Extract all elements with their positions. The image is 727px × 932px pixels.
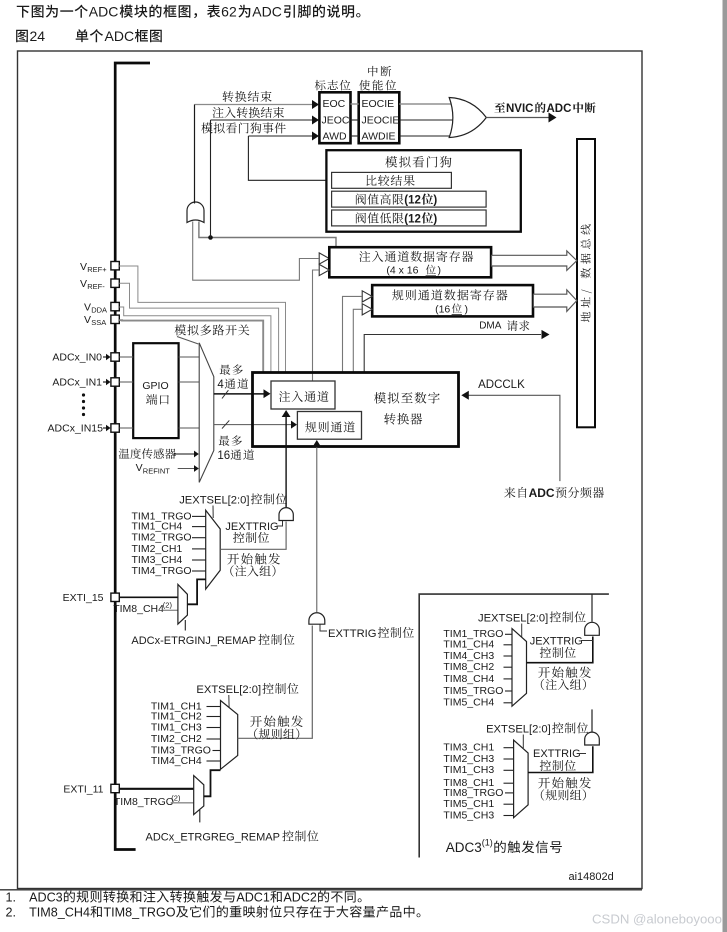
svg-text:TIM8_CH4: TIM8_CH4 <box>29 906 90 920</box>
svg-text:V: V <box>84 302 91 314</box>
selector stub MUX4 <box>199 810 201 822</box>
wire VDDA <box>119 307 271 372</box>
label ADCx_IN0 <box>52 352 110 364</box>
svg-text:EXTTRIG: EXTTRIG <box>533 748 581 760</box>
svg-text:JEOC: JEOC <box>322 115 350 127</box>
tick ADC3 JEXTTRIG <box>581 640 593 642</box>
enable box EOCIE/JEOCIE/AWDIE <box>359 92 400 143</box>
label AWD <box>323 131 348 143</box>
svg-text:ADC: ADC <box>252 4 282 20</box>
label (4x16位) <box>386 265 441 277</box>
wire MUX1 output to gate GJ <box>220 522 286 550</box>
label GPIO 端口 <box>142 380 169 405</box>
svg-text:TIM1_CH3: TIM1_CH3 <box>151 722 202 734</box>
label DMA 请求 <box>479 320 529 331</box>
label 阀值低限(12位) <box>356 212 438 225</box>
MUX1 inputs TIM1_TRGO..TIM4_TRGO <box>132 510 206 577</box>
svg-text:EXTSEL[2:0]: EXTSEL[2:0] <box>196 684 261 696</box>
figure caption 图24 单个ADC框图 <box>16 28 162 44</box>
svg-text:ADC3: ADC3 <box>446 840 482 855</box>
wire DMA request <box>364 330 549 372</box>
wire IN0 to GPIO <box>119 356 133 358</box>
svg-text:CSDN @aloneboyooo: CSDN @aloneboyooo <box>592 912 722 927</box>
MUX6 inputs TIM3_CH1..TIM5_CH3 <box>443 742 513 822</box>
pin pad ADCx_IN15 <box>111 424 119 432</box>
wire GPIO to mux row1 <box>179 381 200 383</box>
tick ADC3 EXTTRIG <box>580 753 586 755</box>
svg-text:): ) <box>433 214 437 226</box>
svg-text:TIM5_CH4: TIM5_CH4 <box>443 697 494 709</box>
pin pad VSSA <box>111 315 119 323</box>
label VREF- <box>80 278 105 291</box>
svg-text:EXTSEL[2:0]: EXTSEL[2:0] <box>486 724 551 736</box>
svg-text:TIM8_CH2: TIM8_CH2 <box>443 661 494 673</box>
label VREF+ <box>80 261 107 274</box>
label 注入通道数据寄存器 <box>359 251 473 262</box>
wire AWDIE to G2 <box>399 135 454 137</box>
analog multiplexer <box>199 343 214 483</box>
AND gate GJ3 <box>585 622 600 635</box>
pin pad EXTI_15 <box>111 593 119 601</box>
svg-text:TIM4_TRGO: TIM4_TRGO <box>132 565 192 577</box>
svg-text:EXTI_11: EXTI_11 <box>63 784 103 796</box>
injected trigger mux MUX1 <box>206 510 221 589</box>
label ADC3 JEXTSEL[2:0]控制位 <box>478 611 586 624</box>
svg-text:62: 62 <box>221 4 237 20</box>
AND gate GE3 <box>585 732 600 745</box>
regular data register box <box>372 285 533 316</box>
watchdog box <box>326 150 520 232</box>
svg-text:EOCIE: EOCIE <box>362 98 395 110</box>
svg-text:ADC3: ADC3 <box>29 891 63 905</box>
svg-text:V: V <box>136 462 143 474</box>
svg-text:ADC2: ADC2 <box>283 891 317 905</box>
svg-text:): ) <box>465 303 469 315</box>
svg-text:REF-: REF- <box>87 282 105 291</box>
label AWDIE <box>362 131 396 143</box>
selector line JEXTSEL <box>212 506 214 519</box>
svg-text:TIM2_TRGO: TIM2_TRGO <box>132 532 192 544</box>
pin pad VREF- <box>111 279 119 287</box>
label 最多16通道 <box>217 435 254 462</box>
svg-text:ai14802d: ai14802d <box>569 871 614 883</box>
label ADC3(1)的触发信号 <box>446 838 562 856</box>
wire ADCCLK <box>461 391 560 481</box>
wire 温度传感器 <box>174 451 199 458</box>
ADC3 injected mux MUX5 <box>512 629 527 707</box>
stub EOC-EOCIE <box>351 103 359 105</box>
svg-text:TIM1_CH3: TIM1_CH3 <box>443 764 494 776</box>
label 来自ADC预分频器 <box>504 486 604 500</box>
wire EXTI_15 <box>119 596 180 598</box>
label 标志位 <box>315 80 351 91</box>
ellipsis dots <box>82 393 85 416</box>
regular trigger mux MUX3 <box>221 701 238 770</box>
svg-text:TIM8_CH4: TIM8_CH4 <box>113 603 164 615</box>
svg-text:JEXTTRIG: JEXTTRIG <box>530 636 583 648</box>
svg-text:): ) <box>438 265 442 277</box>
label 地址/数据总线 vertical <box>581 224 592 322</box>
wire injected channels <box>214 389 271 398</box>
svg-text:REFINT: REFINT <box>143 467 171 476</box>
stub JEOC-JEOCIE <box>351 119 359 121</box>
label ADC3 开始触发(规则组) <box>538 777 591 801</box>
wire AWD to comparison box <box>248 136 331 180</box>
tick EXTTRIG <box>320 625 327 632</box>
label 转换器 <box>384 413 422 425</box>
label 注入通道 <box>279 391 328 402</box>
remap mux MUX4 <box>194 776 204 815</box>
svg-text:ADC: ADC <box>89 4 119 20</box>
svg-text:TIM3_CH1: TIM3_CH1 <box>443 742 494 754</box>
pin pad VDDA <box>111 302 119 310</box>
svg-text:AWD: AWD <box>323 131 348 143</box>
arrow into regular register D <box>362 304 372 315</box>
label ADCx_ETRGREG_REMAP控制位 <box>146 830 319 843</box>
callout line 模拟多路开关 <box>177 337 198 345</box>
note 1 <box>6 891 362 905</box>
OR gate G2 <box>449 98 486 138</box>
label 规则通道数据寄存器 <box>392 289 507 300</box>
wire G1 input B <box>199 222 336 247</box>
page heading paragraph <box>17 4 361 20</box>
label ADCx-ETRGINJ_REMAP控制位 <box>131 634 294 647</box>
arrow into regular register C <box>362 291 372 302</box>
wire MUX6 output to gate GE3 <box>528 746 593 772</box>
label 使能位 <box>359 80 396 91</box>
note 2 <box>6 906 421 920</box>
svg-text:ADC1: ADC1 <box>236 891 270 905</box>
selector line ADC3 EXTSEL <box>522 735 524 749</box>
wire G1 output to EOC <box>194 105 196 204</box>
wire IN15 to GPIO <box>119 427 133 429</box>
svg-text:V: V <box>84 314 91 326</box>
arrow into injected register A <box>319 253 329 264</box>
svg-text:V: V <box>80 261 87 273</box>
wire regular channels <box>214 421 297 429</box>
selector stub MUX2 <box>184 620 186 631</box>
right gray strip <box>723 0 727 932</box>
svg-text:JEOCIE: JEOCIE <box>362 115 400 127</box>
analog to digital converter box <box>253 373 459 447</box>
label 至NVIC的ADC中断 <box>494 102 595 115</box>
threshold low box <box>332 210 487 226</box>
label VREFINT <box>136 462 171 476</box>
pin pad VREF+ <box>111 262 119 270</box>
flag box EOC/JEOC/AWD <box>319 92 350 143</box>
wire GPIO to mux row0 <box>179 356 200 358</box>
svg-text:TIM4_CH4: TIM4_CH4 <box>151 755 202 767</box>
wire G2 to NVIC <box>486 113 556 123</box>
injected data register box <box>329 247 491 277</box>
svg-text:JEXTSEL[2:0]: JEXTSEL[2:0] <box>179 495 249 507</box>
label ADCx_IN15 <box>48 423 111 435</box>
label TIM8_TRGO(2) <box>114 794 181 809</box>
injected channels box <box>271 381 335 409</box>
label 模拟看门狗事件 <box>201 122 286 133</box>
stub GJ3 output <box>591 594 593 622</box>
label EXTTRIG控制位 <box>328 627 414 640</box>
label 温度传感器 <box>119 448 176 459</box>
svg-text:GPIO: GPIO <box>142 380 168 392</box>
svg-text:(12: (12 <box>404 214 421 226</box>
svg-text:24: 24 <box>30 28 46 44</box>
svg-text:(12: (12 <box>404 195 421 207</box>
pin pad ADCx_IN1 <box>111 378 119 386</box>
label ADC3 EXTSEL[2:0]控制位 <box>486 722 588 735</box>
junction dot JEOC <box>208 235 213 240</box>
label 转换结束 <box>223 91 272 102</box>
svg-text:SSA: SSA <box>91 318 106 327</box>
selector line EXTSEL <box>228 695 230 707</box>
svg-text:ADCx_IN0: ADCx_IN0 <box>52 352 102 364</box>
label VSSA <box>84 314 106 327</box>
svg-text:REF+: REF+ <box>87 265 107 274</box>
GPIO port box <box>133 343 178 438</box>
notes separator rule <box>0 889 642 891</box>
AND gate GJ injected trigger <box>279 508 293 521</box>
label ADC3 JEXTTRIG 控制位 <box>530 636 583 658</box>
regular channels box <box>297 412 361 440</box>
label JEXTTRIG 控制位 <box>225 521 278 543</box>
label 比较结果 <box>366 175 414 186</box>
label EOC <box>323 98 346 110</box>
label ADC3 EXTTRIG 控制位 <box>533 748 581 771</box>
svg-text:EOC: EOC <box>323 98 346 110</box>
selector line ADC3 JEXTSEL <box>521 624 523 638</box>
OR gate G1 <box>187 202 204 223</box>
svg-text:JEXTTRIG: JEXTTRIG <box>225 521 278 533</box>
svg-text:JEXTSEL[2:0]: JEXTSEL[2:0] <box>478 613 548 625</box>
label 中断 <box>368 66 391 77</box>
label ADC3 开始触发(注入组) <box>538 666 591 690</box>
svg-text:2.: 2. <box>6 906 17 920</box>
threshold high box <box>332 191 487 207</box>
label ai14802d <box>569 871 614 883</box>
ADC module boundary line <box>115 63 150 850</box>
svg-text:ADCx_ETRGREG_REMAP: ADCx_ETRGREG_REMAP <box>146 832 280 844</box>
wire EXTI_11 <box>119 788 193 790</box>
wire regular feed D <box>353 309 361 371</box>
address data bus bar <box>577 139 595 427</box>
wire GE output to regular channels <box>312 440 321 612</box>
svg-text:EXTI_15: EXTI_15 <box>63 592 104 604</box>
label 最多4通道 <box>217 364 248 391</box>
wire MUX2 output <box>187 579 205 604</box>
svg-text:ADCCLK: ADCCLK <box>478 379 525 391</box>
svg-text:TIM2_CH3: TIM2_CH3 <box>443 753 494 765</box>
svg-text:ADCx_IN1: ADCx_IN1 <box>52 377 102 389</box>
wire EOC <box>195 100 320 109</box>
figure outer frame <box>18 51 643 889</box>
ADC3 box bracket <box>419 594 609 857</box>
svg-text:TIM4_CH3: TIM4_CH3 <box>443 650 494 662</box>
label ADCCLK <box>478 379 525 391</box>
pin pad ADCx_IN0 <box>111 353 119 361</box>
label 阀值高限(12位) <box>356 194 438 207</box>
label JEOC <box>322 115 350 127</box>
wire GPIO to mux row15 <box>179 427 200 429</box>
svg-text:ADC: ADC <box>105 28 135 44</box>
svg-text:ADC: ADC <box>529 486 555 500</box>
label EXTI_11 <box>63 784 103 796</box>
svg-text:TIM8_TRGO: TIM8_TRGO <box>443 787 503 799</box>
slash tick 4ch <box>222 390 228 398</box>
label ADCx_IN1 <box>52 377 110 389</box>
svg-text:): ) <box>433 195 437 207</box>
wire IN1 to GPIO <box>119 381 133 383</box>
svg-text:TIM5_CH1: TIM5_CH1 <box>443 798 494 810</box>
wire TIM8_CH4 <box>163 609 178 611</box>
svg-text:TIM8_TRGO: TIM8_TRGO <box>103 906 175 920</box>
svg-text:(16: (16 <box>435 303 450 315</box>
label EXTSEL[2:0]控制位 <box>196 683 298 696</box>
wire EOCIE to G2 <box>399 103 454 105</box>
label 注入转换结束 <box>212 107 284 118</box>
svg-text:TIM8_TRGO: TIM8_TRGO <box>114 796 174 808</box>
remap mux MUX2 <box>178 584 188 624</box>
label VDDA <box>84 302 107 315</box>
wire VREFINT <box>178 465 199 472</box>
svg-text:EXTTRIG: EXTTRIG <box>328 628 376 640</box>
svg-text:4: 4 <box>217 379 224 391</box>
stub GE3 output <box>591 709 593 731</box>
pin pad EXTI_11 <box>111 784 119 792</box>
label 模拟看门狗 <box>385 156 451 168</box>
svg-text:TIM5_TRGO: TIM5_TRGO <box>443 685 503 697</box>
wire TIM8_TRGO <box>171 802 194 804</box>
MUX5 inputs TIM1_TRGO..TIM5_CH4 <box>443 628 512 709</box>
wire VREF- <box>119 283 278 371</box>
svg-text:(2): (2) <box>171 794 181 803</box>
svg-text:TIM8_CH4: TIM8_CH4 <box>443 673 494 685</box>
label 开始触发(规则组) <box>250 715 303 739</box>
label JEOCIE <box>362 115 400 127</box>
MUX3 inputs TIM1_CH1..TIM4_CH4 <box>151 701 221 768</box>
svg-text:ADCx_IN15: ADCx_IN15 <box>48 423 104 435</box>
wire JEOC drop <box>210 120 212 238</box>
label 开始触发(注入组) <box>227 553 280 577</box>
wire G1 input A <box>193 222 319 281</box>
watermark CSDN <box>592 912 722 927</box>
wire MUX3 output to gate GE <box>238 626 313 739</box>
svg-text:16: 16 <box>217 450 230 462</box>
label TIM8_CH4(2) <box>113 601 172 616</box>
label EOCIE <box>362 98 395 110</box>
tick JEXTTRIG <box>277 521 283 526</box>
label 模拟多路开关 <box>175 324 250 335</box>
bus arrow from regular register <box>533 290 576 312</box>
svg-text:TIM1_CH4: TIM1_CH4 <box>443 639 494 651</box>
wire regular feed C <box>343 296 362 371</box>
wire JEOCIE to G2 <box>399 119 455 121</box>
wire MUX4 output <box>204 770 221 796</box>
wire injected feed B <box>313 270 319 381</box>
svg-text:TIM2_CH2: TIM2_CH2 <box>151 733 202 745</box>
svg-text:V: V <box>80 278 87 290</box>
svg-text:AWDIE: AWDIE <box>362 131 396 143</box>
label 规则通道 <box>305 421 355 432</box>
label JEXTSEL[2:0]控制位 <box>179 493 287 506</box>
bus arrow from injected register <box>492 251 577 271</box>
label EXTI_15 <box>63 592 104 604</box>
wire AWD <box>248 132 319 141</box>
arrow into injected register B <box>319 264 329 275</box>
AND gate GE regular trigger <box>309 613 325 624</box>
svg-text:DMA: DMA <box>479 321 502 332</box>
svg-text:(4 x 16: (4 x 16 <box>386 265 418 277</box>
label 模拟至数字 <box>374 392 440 404</box>
wire VSSA <box>119 320 263 371</box>
svg-text:TIM5_CH3: TIM5_CH3 <box>443 809 494 821</box>
svg-text:1.: 1. <box>6 891 17 905</box>
svg-text:DDA: DDA <box>91 306 107 315</box>
svg-text:(2): (2) <box>163 601 173 610</box>
svg-text:ADCx-ETRGINJ_REMAP: ADCx-ETRGINJ_REMAP <box>131 635 256 647</box>
wire JEOC <box>211 116 320 125</box>
comparison result box <box>332 172 452 188</box>
svg-text:ADC: ADC <box>546 103 571 115</box>
slash tick 16ch <box>222 420 229 428</box>
svg-text:(1): (1) <box>482 838 493 848</box>
wire MUX5 output to gate GJ3 <box>527 637 593 663</box>
ADC3 regular mux MUX6 <box>514 740 529 818</box>
label (16位) <box>435 303 468 315</box>
wire VREF+ <box>119 266 285 372</box>
wire GJ output to injected channels <box>282 410 291 507</box>
stub AWD-AWDIE <box>351 135 359 137</box>
svg-text:NVIC: NVIC <box>506 103 533 115</box>
